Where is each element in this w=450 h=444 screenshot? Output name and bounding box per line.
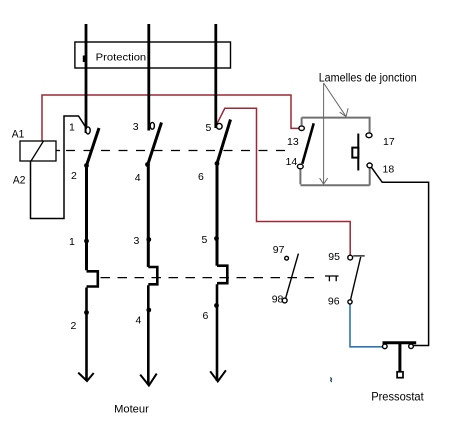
svg-text:13: 13 <box>287 136 299 148</box>
svg-text:1: 1 <box>69 122 75 134</box>
svg-text:1: 1 <box>69 236 75 248</box>
svg-text:3: 3 <box>133 121 139 133</box>
svg-text:3: 3 <box>134 235 140 247</box>
svg-text:Moteur: Moteur <box>114 403 149 415</box>
svg-text:4: 4 <box>135 172 141 184</box>
svg-text:A2: A2 <box>13 175 26 187</box>
svg-text:4: 4 <box>136 315 142 327</box>
svg-text:17: 17 <box>383 136 395 148</box>
svg-text:A1: A1 <box>12 129 24 141</box>
svg-text:Lamelles de jonction: Lamelles de jonction <box>319 70 417 84</box>
svg-text:6: 6 <box>198 171 204 183</box>
svg-text:95: 95 <box>328 251 340 263</box>
svg-text:5: 5 <box>202 234 208 246</box>
svg-text:2: 2 <box>71 320 77 332</box>
svg-text:6: 6 <box>203 310 209 322</box>
svg-text:Pressostat: Pressostat <box>371 391 424 404</box>
svg-text:14: 14 <box>286 156 298 168</box>
svg-text:96: 96 <box>328 296 340 308</box>
svg-text:98: 98 <box>272 293 284 305</box>
svg-text:18: 18 <box>383 164 395 176</box>
svg-text:Protection: Protection <box>96 53 147 64</box>
svg-text:5: 5 <box>206 122 212 134</box>
svg-text:2: 2 <box>71 170 77 182</box>
svg-text:97: 97 <box>273 244 285 256</box>
